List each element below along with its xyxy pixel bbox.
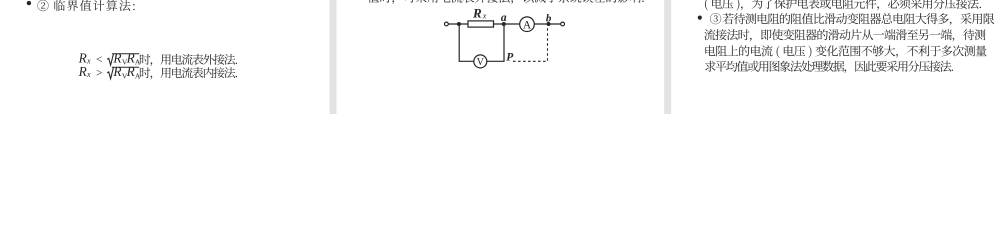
- wire terminal to resistor: [448, 23, 468, 25]
- left heading text: [54, 0, 134, 11]
- svg-text:b: b: [546, 12, 552, 24]
- wire resistor to ammeter: [494, 23, 520, 25]
- node b dot: [547, 22, 551, 26]
- right terminal: [561, 22, 565, 26]
- ammeter A circle: [520, 17, 535, 32]
- svg-text:x: x: [86, 70, 91, 79]
- left formula line 1 radical overline: [112, 53, 139, 55]
- right line 3: [704, 29, 985, 42]
- right line 1 (clipped): [705, 0, 981, 10]
- right line 4: [705, 45, 986, 58]
- left formula line 1 cjk: [140, 54, 237, 66]
- wire ammeter to right terminal: [534, 23, 560, 25]
- wire voltmeter to node P riser to node a: [487, 24, 504, 61]
- gutter bar between panel 2 and 3: [664, 0, 671, 114]
- right circled-3: [710, 13, 721, 24]
- page background: [0, 0, 1000, 114]
- svg-text:A: A: [523, 19, 532, 31]
- left formula line 2 latin math: [78, 64, 141, 80]
- svg-text:R: R: [112, 64, 121, 79]
- gutter bar between panel 1 and 2: [330, 0, 337, 114]
- svg-text:R: R: [472, 6, 482, 21]
- left formula line 2 radical overline: [112, 66, 139, 68]
- left formula line 2 cjk: [140, 67, 237, 79]
- right panel bullet: [698, 16, 702, 20]
- dashed wire P to b: [513, 28, 548, 61]
- voltmeter V circle: [474, 55, 487, 68]
- left formula line 1 latin math: [78, 51, 141, 67]
- left terminal: [445, 22, 449, 26]
- svg-text:P: P: [506, 52, 514, 64]
- middle clipped top text: [368, 0, 644, 4]
- svg-text:V: V: [477, 57, 485, 68]
- node a dot: [502, 22, 506, 26]
- resistor Rx box: [468, 21, 494, 27]
- svg-text:x: x: [86, 56, 91, 65]
- wire left branch down to voltmeter: [459, 24, 474, 61]
- junction dot after left terminal: [457, 22, 461, 26]
- svg-text:R: R: [126, 64, 135, 79]
- svg-text:x: x: [482, 11, 487, 20]
- right line 2: [723, 13, 995, 26]
- right line 5: [705, 61, 953, 73]
- svg-text:<: <: [96, 54, 103, 66]
- left panel bullet: [27, 1, 31, 5]
- svg-text:R: R: [78, 64, 87, 79]
- svg-text:>: >: [96, 68, 103, 80]
- svg-text:a: a: [501, 12, 507, 24]
- left heading circled-2: [37, 0, 48, 11]
